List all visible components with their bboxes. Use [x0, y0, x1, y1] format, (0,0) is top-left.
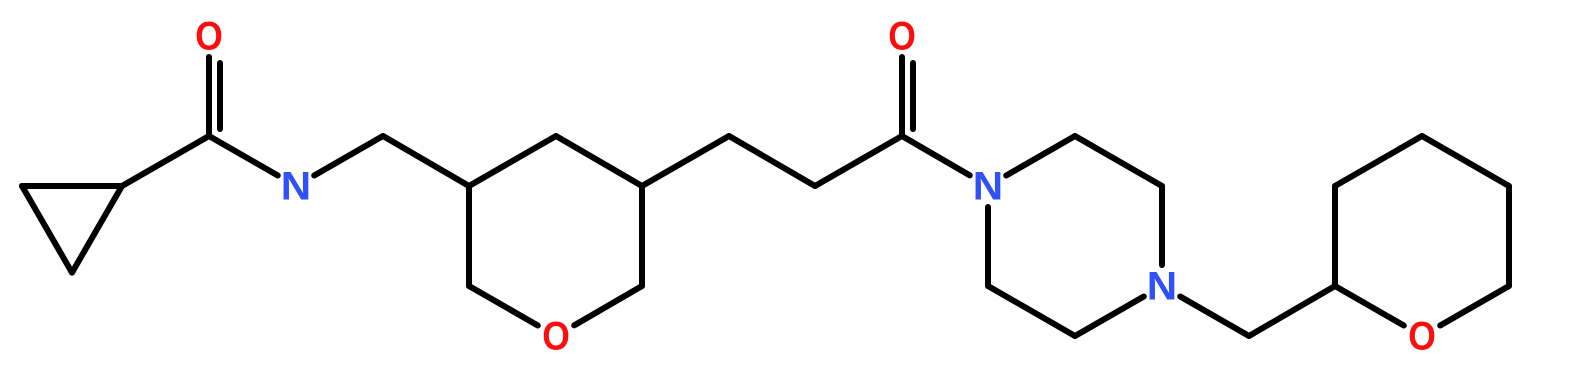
- svg-text:O: O: [195, 15, 223, 59]
- svg-text:N: N: [281, 165, 311, 209]
- svg-text:O: O: [1408, 315, 1436, 359]
- svg-text:O: O: [888, 15, 916, 59]
- svg-text:N: N: [973, 165, 1003, 209]
- svg-text:N: N: [1147, 265, 1177, 309]
- svg-text:O: O: [542, 315, 570, 359]
